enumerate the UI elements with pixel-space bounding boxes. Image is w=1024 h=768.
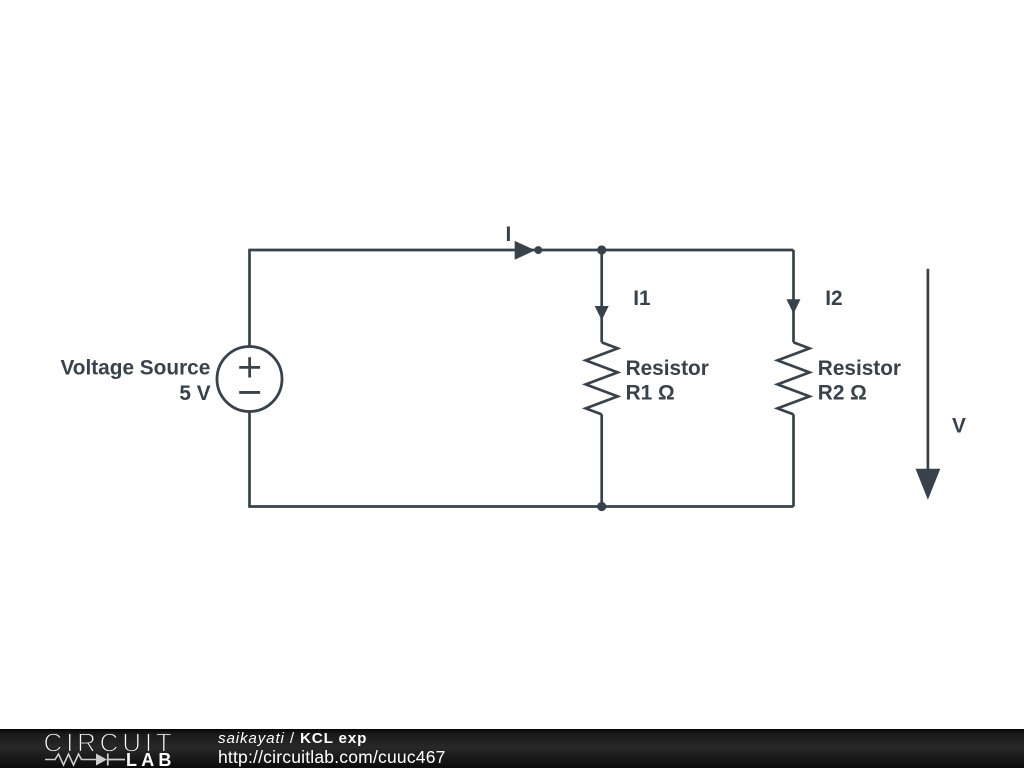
wire R1 bottom stub — [600, 414, 603, 506]
svg-text:R1 Ω: R1 Ω — [626, 382, 675, 405]
voltage annotation arrow V line — [927, 269, 930, 470]
voltage annotation arrowhead V — [916, 469, 941, 500]
wire R2 bottom stub — [792, 414, 795, 506]
footer title saikayati / KCL exp — [218, 731, 367, 746]
svg-text:R2 Ω: R2 Ω — [818, 382, 867, 405]
current arrow I — [515, 241, 543, 260]
current arrow I2 — [787, 299, 801, 314]
wire left vertical lower — [248, 412, 251, 507]
footer url — [218, 749, 446, 767]
wire bottom horizontal — [248, 505, 793, 508]
wire R1 top stub — [600, 250, 603, 342]
CircuitLab logo — [0, 729, 190, 768]
svg-text:Resistor: Resistor — [626, 357, 709, 380]
node junction top — [597, 245, 606, 254]
logo resistor glyph — [45, 754, 96, 765]
svg-text:Voltage Source: Voltage Source — [60, 357, 210, 380]
svg-text:I: I — [506, 223, 512, 246]
current arrow I1 — [595, 306, 609, 320]
wire left vertical upper — [248, 249, 251, 347]
svg-text:5 V: 5 V — [179, 382, 210, 405]
footer bar — [0, 729, 1024, 768]
node junction bottom — [597, 502, 606, 511]
logo diode glyph — [96, 754, 107, 766]
svg-text:LAB: LAB — [126, 750, 176, 768]
resistor R2 — [778, 342, 810, 414]
resistor R1 — [586, 342, 618, 414]
svg-text:I2: I2 — [825, 287, 842, 310]
svg-text:V: V — [952, 415, 966, 438]
voltage source V1 — [217, 347, 282, 412]
svg-text:I1: I1 — [633, 287, 650, 310]
wire top horizontal — [250, 249, 794, 252]
svg-text:Resistor: Resistor — [818, 357, 901, 380]
wire R2 top stub — [792, 250, 795, 342]
